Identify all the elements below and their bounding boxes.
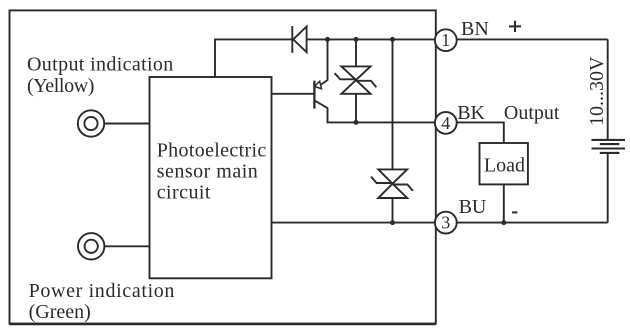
svg-text:3: 3 [441,213,450,233]
svg-text:1: 1 [441,30,450,50]
svg-text:Output: Output [504,102,560,124]
svg-text:Photoelectric: Photoelectric [157,140,267,162]
svg-text:10...30V: 10...30V [586,56,608,126]
svg-text:BK: BK [457,102,485,124]
svg-text:BU: BU [459,196,487,218]
svg-text:BN: BN [461,18,489,40]
svg-text:Output indication: Output indication [27,54,174,76]
svg-text:(Green): (Green) [29,301,91,323]
svg-text:(Yellow): (Yellow) [27,75,94,97]
svg-text:4: 4 [441,113,450,133]
svg-text:circuit: circuit [157,182,211,204]
svg-text:Power indication: Power indication [29,280,175,302]
svg-text:Load: Load [484,155,525,177]
svg-text:sensor main: sensor main [157,161,259,183]
